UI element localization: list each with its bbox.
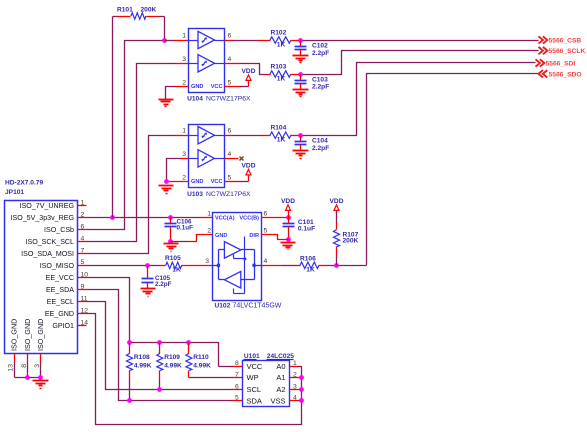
wire — [290, 389, 302, 391]
svg-text:3: 3 — [205, 258, 209, 265]
svg-text:U102: U102 — [215, 302, 231, 309]
svg-text:4: 4 — [228, 56, 232, 63]
net 5566_SDI — [536, 59, 576, 67]
svg-text:5: 5 — [264, 228, 268, 235]
wire — [225, 64, 271, 75]
transceiver U102 74LVC1T45GW — [205, 211, 282, 310]
svg-text:200K: 200K — [141, 7, 157, 14]
svg-text:A1: A1 — [276, 373, 285, 382]
ground — [293, 151, 309, 159]
svg-text:A0: A0 — [276, 362, 285, 371]
svg-text:VCC(A): VCC(A) — [215, 216, 235, 222]
svg-text:3: 3 — [293, 383, 297, 390]
wire — [225, 40, 271, 42]
svg-text:R109: R109 — [164, 354, 180, 361]
svg-text:WP: WP — [247, 373, 259, 382]
svg-text:5566_CSB: 5566_CSB — [549, 38, 582, 45]
svg-text:200K: 200K — [343, 238, 359, 245]
resistor R104 — [270, 125, 298, 144]
svg-text:R101: R101 — [117, 7, 133, 14]
net 5566_SCLK — [539, 47, 586, 55]
wire — [87, 314, 302, 425]
junction — [299, 375, 304, 403]
resistor R107 — [334, 211, 359, 266]
svg-text:HD-2X7.0.79: HD-2X7.0.79 — [5, 180, 43, 187]
capacitor C105 — [142, 266, 172, 289]
junction — [298, 72, 303, 77]
svg-text:R103: R103 — [271, 64, 287, 71]
resistor R102 — [270, 30, 298, 49]
svg-text:0.1uF: 0.1uF — [177, 224, 194, 231]
svg-text:R102: R102 — [271, 30, 287, 37]
svg-text:4: 4 — [293, 395, 297, 402]
svg-text:ISO_7V_UNREG: ISO_7V_UNREG — [20, 202, 74, 210]
wire — [87, 64, 189, 242]
junction node 5V_REG — [110, 215, 173, 220]
wire — [87, 290, 243, 401]
svg-text:8: 8 — [235, 360, 239, 367]
svg-text:4: 4 — [228, 151, 232, 158]
wire — [225, 135, 271, 137]
svg-text:5: 5 — [235, 395, 239, 402]
svg-text:VCC: VCC — [211, 179, 223, 185]
capacitor C106 — [165, 218, 194, 242]
svg-text:C102: C102 — [312, 43, 328, 50]
svg-text:GPIO1: GPIO1 — [52, 322, 74, 330]
resistor R103 — [270, 64, 298, 83]
svg-text:2: 2 — [293, 371, 297, 378]
op-amp U103 (dual schmitt buffer NC7WZ17P6X) — [182, 125, 251, 199]
svg-text:C104: C104 — [312, 138, 328, 145]
svg-text:EE_SCL: EE_SCL — [47, 298, 74, 306]
junction — [162, 38, 167, 43]
svg-text:VCC(B): VCC(B) — [239, 216, 259, 222]
wire — [225, 181, 249, 183]
svg-text:3: 3 — [182, 56, 186, 63]
svg-text:6: 6 — [228, 33, 232, 40]
ground — [33, 381, 49, 389]
resistor R101 — [113, 7, 165, 218]
no-connect X on U103 pin 4 — [225, 157, 244, 161]
junction — [298, 133, 303, 138]
svg-text:1: 1 — [293, 360, 297, 367]
svg-text:GND: GND — [215, 233, 227, 239]
svg-text:GND: GND — [191, 84, 203, 90]
svg-text:5: 5 — [228, 175, 232, 182]
wire — [130, 343, 243, 367]
junction — [298, 38, 303, 43]
eeprom U101 24LC025 — [235, 353, 297, 406]
wire — [199, 217, 213, 219]
wire — [167, 159, 189, 182]
svg-text:2: 2 — [182, 80, 186, 87]
svg-text:C103: C103 — [312, 76, 328, 83]
resistor R109 — [157, 343, 182, 390]
wire — [262, 235, 289, 240]
svg-text:VCC: VCC — [211, 84, 223, 90]
junction — [286, 237, 291, 242]
wire — [167, 181, 189, 183]
wire — [290, 377, 302, 379]
ground — [293, 90, 309, 97]
capacitor C101 — [283, 218, 316, 240]
svg-text:2: 2 — [182, 175, 186, 182]
ground — [293, 56, 309, 63]
svg-text:A2: A2 — [276, 385, 285, 394]
svg-text:4.99K: 4.99K — [134, 362, 152, 369]
power VDD — [281, 198, 295, 218]
wire — [87, 217, 199, 219]
resistor R106 — [300, 256, 327, 274]
svg-text:SCL: SCL — [247, 385, 262, 394]
svg-text:2.2pF: 2.2pF — [312, 145, 329, 152]
junction — [164, 179, 169, 184]
svg-text:R110: R110 — [193, 354, 209, 361]
svg-text:ISO_GND: ISO_GND — [10, 319, 19, 351]
junction — [286, 215, 291, 220]
svg-text:13: 13 — [8, 364, 15, 372]
svg-text:DIR: DIR — [249, 233, 259, 239]
svg-text:2: 2 — [207, 228, 211, 235]
svg-text:4.99K: 4.99K — [164, 362, 182, 369]
wire — [189, 377, 243, 379]
wire — [262, 265, 301, 267]
svg-text:2.2pF: 2.2pF — [312, 50, 329, 57]
resistor R110 — [186, 343, 211, 378]
wire — [87, 265, 166, 267]
wire — [298, 63, 536, 136]
junction — [127, 340, 191, 345]
connector JP101 (HD-2X7.0.79) — [5, 180, 89, 372]
ground — [141, 289, 156, 297]
wire — [298, 51, 539, 75]
svg-text:6: 6 — [228, 128, 232, 135]
ground — [159, 186, 174, 194]
wire — [290, 366, 299, 368]
svg-text:ISO_SDA_MOSI: ISO_SDA_MOSI — [21, 250, 74, 258]
svg-text:74LVC1T45GW: 74LVC1T45GW — [233, 302, 282, 309]
wire — [87, 278, 130, 343]
svg-text:R106: R106 — [300, 256, 316, 263]
svg-text:U104: U104 — [187, 95, 203, 102]
junction — [145, 263, 150, 268]
wire — [87, 302, 243, 390]
junction — [25, 375, 43, 380]
svg-text:ISO_MISO: ISO_MISO — [40, 262, 75, 270]
svg-text:2.2pF: 2.2pF — [155, 281, 172, 288]
svg-text:R108: R108 — [134, 354, 150, 361]
svg-text:5566_SDO: 5566_SDO — [549, 71, 582, 78]
svg-text:SDA: SDA — [247, 397, 262, 406]
wire — [262, 217, 289, 219]
svg-text:3: 3 — [182, 151, 186, 158]
svg-text:4.99K: 4.99K — [193, 362, 211, 369]
svg-text:1: 1 — [182, 128, 186, 135]
junction — [334, 263, 339, 268]
junction — [157, 387, 162, 392]
wire — [171, 235, 213, 242]
resistor R105 — [165, 255, 213, 274]
wire — [165, 40, 189, 42]
svg-text:NC7WZ17P6X: NC7WZ17P6X — [206, 95, 251, 102]
svg-text:GND: GND — [191, 179, 203, 185]
svg-text:ISO_GND: ISO_GND — [36, 319, 45, 351]
svg-text:R105: R105 — [165, 255, 181, 262]
capacitor C103 — [295, 75, 330, 91]
svg-text:ISO_CSb: ISO_CSb — [44, 226, 74, 234]
svg-text:1K: 1K — [277, 41, 286, 48]
capacitor C102 — [295, 41, 330, 57]
svg-text:VCC: VCC — [247, 362, 263, 371]
net 5566_CSB — [539, 36, 582, 44]
wire — [327, 74, 539, 266]
ground — [281, 243, 296, 250]
svg-text:NC7WZ17P6X: NC7WZ17P6X — [206, 191, 251, 198]
op-amp U104 (dual schmitt buffer NC7WZ17P6X) — [182, 29, 251, 103]
svg-text:1: 1 — [207, 211, 211, 218]
power VDD — [242, 163, 256, 182]
svg-text:1K: 1K — [277, 75, 286, 82]
svg-text:VSS: VSS — [270, 397, 285, 406]
wire — [225, 86, 249, 88]
svg-text:ISO_5V_3p3v_REG: ISO_5V_3p3v_REG — [11, 214, 75, 222]
svg-text:7: 7 — [235, 371, 239, 378]
svg-text:1: 1 — [182, 33, 186, 40]
wire — [87, 136, 189, 254]
svg-text:5566_SDI: 5566_SDI — [546, 61, 576, 68]
svg-text:1K: 1K — [277, 137, 286, 144]
svg-text:6: 6 — [264, 211, 268, 218]
junction — [168, 239, 173, 244]
svg-text:5: 5 — [228, 80, 232, 87]
svg-text:ISO_SCK_SCL: ISO_SCK_SCL — [26, 238, 75, 246]
wire — [87, 41, 165, 230]
wire — [166, 87, 189, 100]
svg-text:JP101: JP101 — [5, 189, 24, 196]
svg-text:R104: R104 — [271, 125, 287, 132]
svg-text:5566_SCLK: 5566_SCLK — [549, 48, 586, 55]
svg-text:EE_GND: EE_GND — [45, 310, 74, 318]
wire — [298, 40, 539, 42]
svg-text:U103: U103 — [187, 191, 203, 198]
svg-text:6: 6 — [235, 383, 239, 390]
svg-text:EE_SDA: EE_SDA — [46, 286, 74, 294]
svg-text:EE_VCC: EE_VCC — [46, 274, 74, 282]
power VDD — [242, 68, 256, 87]
ground — [159, 100, 174, 107]
svg-text:1K: 1K — [172, 267, 181, 274]
wire — [290, 400, 302, 402]
svg-text:0.1uF: 0.1uF — [298, 226, 315, 233]
net 5566_SDO — [539, 70, 582, 78]
resistor R108 — [127, 343, 152, 401]
power VDD — [330, 198, 344, 211]
wire — [15, 363, 41, 378]
svg-text:1K: 1K — [306, 267, 315, 274]
svg-text:4: 4 — [264, 258, 268, 265]
svg-text:ISO_GND: ISO_GND — [23, 319, 32, 351]
capacitor C104 — [295, 136, 330, 152]
junction — [127, 398, 132, 403]
ground — [164, 244, 179, 252]
svg-text:2.2pF: 2.2pF — [312, 84, 329, 91]
